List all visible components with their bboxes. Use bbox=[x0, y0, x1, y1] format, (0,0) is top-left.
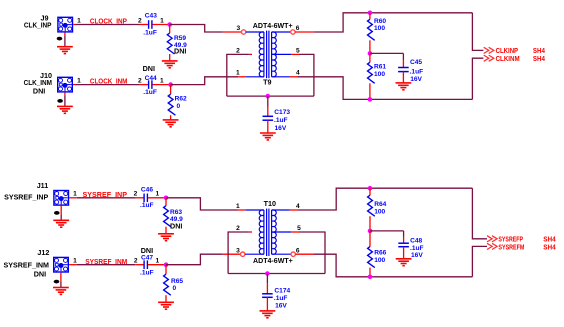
svg-text:CLK_INM: CLK_INM bbox=[24, 78, 52, 87]
ground under J9 bbox=[57, 47, 73, 54]
junction node C43/R59 bbox=[167, 22, 172, 27]
svg-text:DNI: DNI bbox=[143, 64, 155, 73]
label R61 bbox=[374, 64, 386, 71]
label ADT4-6WT+ of T9 bbox=[253, 21, 293, 30]
value 100 of R61 bbox=[374, 71, 385, 78]
svg-text:DNI: DNI bbox=[34, 269, 46, 278]
label SYSREF_INM bbox=[4, 261, 50, 270]
svg-text:0: 0 bbox=[173, 285, 177, 292]
svg-text:SYSREF_INM: SYSREF_INM bbox=[85, 257, 127, 266]
pin 5 of T10 bbox=[297, 225, 301, 232]
value .1uF of C173 bbox=[274, 117, 288, 124]
resistor R63 bbox=[164, 198, 171, 234]
wire C47 junction to T10 pin 3 bbox=[166, 254, 223, 265]
resistor R59 bbox=[167, 25, 174, 61]
ground under C45 bbox=[396, 83, 412, 90]
svg-text:R63: R63 bbox=[170, 209, 182, 216]
svg-text:DNI: DNI bbox=[170, 221, 182, 230]
svg-text:3: 3 bbox=[236, 247, 240, 254]
label C47 bbox=[141, 255, 153, 262]
svg-text:SYSREF_INP: SYSREF_INP bbox=[4, 192, 48, 201]
svg-text:C48: C48 bbox=[410, 238, 422, 245]
connector J9 bbox=[58, 17, 75, 32]
svg-text:DNI: DNI bbox=[141, 246, 153, 255]
svg-text:16V: 16V bbox=[275, 125, 287, 132]
label C48 bbox=[410, 238, 422, 245]
svg-text:DNI: DNI bbox=[33, 87, 45, 96]
net-tie blob under J12 bbox=[54, 280, 60, 284]
svg-text:T9: T9 bbox=[263, 78, 271, 87]
pin 5 of T9 bbox=[296, 48, 300, 55]
DNI note of C44 bbox=[143, 64, 155, 73]
svg-text:6: 6 bbox=[296, 25, 300, 32]
DNI note of R63 bbox=[170, 221, 182, 230]
wire top rail to SYSREFP stub bbox=[472, 188, 487, 239]
svg-text:SYSREFM: SYSREFM bbox=[498, 242, 524, 251]
net label CLKINM bbox=[496, 54, 520, 63]
wire mid node to C45 bbox=[370, 53, 404, 60]
junction node top rail/R60 bbox=[368, 11, 373, 16]
label C43 bbox=[145, 13, 157, 20]
wire center-tap rail of T10 bbox=[228, 273, 325, 275]
svg-text:C45: C45 bbox=[410, 59, 422, 66]
svg-text:ADT4-6WT+: ADT4-6WT+ bbox=[253, 256, 293, 265]
off-page arrow SYSREFM bbox=[487, 243, 497, 249]
label C45 bbox=[410, 59, 422, 66]
ground under R63 bbox=[158, 234, 174, 241]
svg-text:R62: R62 bbox=[175, 96, 187, 103]
svg-text:DNI: DNI bbox=[174, 47, 186, 56]
svg-text:6: 6 bbox=[296, 247, 300, 254]
label R62 bbox=[175, 96, 187, 103]
svg-text:2: 2 bbox=[134, 258, 138, 265]
pin 1 of T9 bbox=[236, 70, 240, 77]
svg-text:R64: R64 bbox=[374, 201, 386, 208]
svg-text:2: 2 bbox=[138, 17, 142, 24]
wire T10 pin 5 to center rail bbox=[299, 232, 325, 274]
svg-text:J11: J11 bbox=[37, 181, 49, 190]
pin 2 of C44 bbox=[138, 78, 142, 85]
label T10 refdes bbox=[264, 199, 276, 208]
svg-text:1: 1 bbox=[73, 191, 77, 198]
label J11 refdes bbox=[37, 181, 49, 190]
svg-text:SH4: SH4 bbox=[543, 242, 556, 251]
svg-text:C173: C173 bbox=[274, 109, 290, 116]
wire T10 pin 4 to top rail bbox=[297, 188, 472, 210]
junction node C46/R63 bbox=[164, 196, 169, 201]
label R64 bbox=[374, 201, 386, 208]
DNI note of J12 bbox=[34, 269, 46, 278]
svg-text:.1uF: .1uF bbox=[410, 69, 424, 76]
svg-text:CLOCK_INM: CLOCK_INM bbox=[90, 77, 128, 86]
resistor R65 bbox=[164, 265, 171, 303]
svg-text:0: 0 bbox=[177, 103, 181, 110]
junction node rail/C174 bbox=[265, 271, 270, 276]
pin 1 of J11 bbox=[73, 191, 77, 198]
junction node rail/C173 bbox=[266, 94, 271, 99]
svg-text:C46: C46 bbox=[141, 187, 153, 194]
wire T10 pin 6 to bottom rail bbox=[314, 254, 472, 277]
value 16V of C174 bbox=[275, 302, 287, 309]
svg-text:.1uF: .1uF bbox=[274, 295, 288, 302]
wire C46 junction to T10 pin 1 bbox=[166, 198, 238, 210]
svg-text:SYSREF_INP: SYSREF_INP bbox=[83, 190, 128, 199]
svg-text:1: 1 bbox=[160, 78, 164, 85]
pin 2 of C47 bbox=[134, 258, 138, 265]
label R60 bbox=[374, 18, 386, 25]
svg-text:C47: C47 bbox=[141, 255, 153, 262]
svg-text:1: 1 bbox=[160, 17, 164, 24]
svg-text:16V: 16V bbox=[411, 252, 423, 259]
transformer T10 ADT4-6WT+ bbox=[223, 209, 314, 257]
pin 1 of J9 bbox=[77, 18, 81, 25]
ground under J11 bbox=[53, 220, 69, 227]
svg-text:R66: R66 bbox=[374, 250, 386, 257]
wire bottom rail to CLKINM stub bbox=[472, 58, 483, 99]
svg-text:.1uF: .1uF bbox=[274, 117, 288, 124]
ground under J12 bbox=[53, 288, 69, 295]
svg-text:.1uF: .1uF bbox=[140, 202, 154, 209]
pin 1 of C44 bbox=[160, 78, 164, 85]
value .1uF of C48 bbox=[410, 245, 424, 252]
value 0 of R62 bbox=[177, 103, 181, 110]
transformer T9 ADT4-6WT+ bbox=[223, 30, 314, 78]
pin 1 of C46 bbox=[155, 191, 159, 198]
net label CLKINP bbox=[496, 46, 519, 55]
value 49.9 of R59 bbox=[174, 42, 187, 49]
pin 2 of T10 bbox=[236, 225, 240, 232]
label R59 bbox=[174, 35, 186, 42]
value 16V of C48 bbox=[411, 252, 423, 259]
sheet ref SH4 for SYSREFP bbox=[543, 235, 556, 244]
svg-text:1: 1 bbox=[73, 258, 77, 265]
wire C43 junction to T9 pin 3 bbox=[170, 25, 223, 33]
value 16V of C45 bbox=[410, 76, 422, 83]
resistor R60 bbox=[368, 13, 375, 54]
pin 2 of T9 bbox=[236, 48, 240, 55]
label ADT4-6WT+ of T10 bbox=[253, 256, 293, 265]
DNI note of R59 bbox=[174, 47, 186, 56]
capacitor C47 bbox=[135, 260, 166, 269]
svg-text:SH4: SH4 bbox=[533, 54, 546, 63]
svg-text:2: 2 bbox=[236, 48, 240, 55]
label R63 bbox=[170, 209, 182, 216]
capacitor C46 bbox=[135, 194, 166, 203]
sheet ref SH4 for SYSREFM bbox=[543, 242, 556, 251]
label T9 refdes bbox=[263, 78, 271, 87]
wire J9 to ground bbox=[64, 33, 66, 47]
svg-text:.1uF: .1uF bbox=[143, 30, 157, 37]
svg-text:1: 1 bbox=[155, 191, 159, 198]
svg-text:16V: 16V bbox=[275, 302, 287, 309]
wire T9 pin 6 to top rail bbox=[314, 13, 473, 32]
capacitor C48 bbox=[398, 237, 409, 259]
label CLK_INP bbox=[24, 20, 52, 29]
value 0 of R65 bbox=[173, 285, 177, 292]
connector J11 bbox=[54, 191, 77, 206]
wire T9 pin 5 to center rail bbox=[299, 54, 314, 96]
pin 6 of T10 bbox=[296, 247, 300, 254]
label J10 refdes bbox=[40, 71, 52, 80]
value .1uF of C44 bbox=[143, 89, 157, 96]
value 16V of C173 bbox=[275, 125, 287, 132]
value 100 of R66 bbox=[374, 257, 385, 264]
value 100 of R64 bbox=[374, 209, 385, 216]
svg-text:100: 100 bbox=[374, 209, 385, 216]
ground under J10 bbox=[57, 106, 73, 113]
wire T9 pin 2 to center rail bbox=[227, 54, 249, 96]
svg-text:C174: C174 bbox=[274, 288, 290, 295]
svg-text:3: 3 bbox=[236, 25, 240, 32]
svg-text:T10: T10 bbox=[264, 199, 276, 208]
ground under R65 bbox=[158, 302, 174, 309]
wire mid node to C48 bbox=[370, 231, 404, 237]
wire center-tap rail of T9 bbox=[227, 95, 314, 97]
pin 2 of C43 bbox=[138, 17, 142, 24]
net label CLOCK_INP bbox=[90, 17, 127, 26]
svg-text:J12: J12 bbox=[37, 248, 49, 257]
ground under C48 bbox=[396, 259, 412, 266]
wire net SYSREF_INP J11 to C46 bbox=[77, 197, 135, 199]
svg-text:SYSREF_INM: SYSREF_INM bbox=[4, 261, 50, 270]
svg-text:CLOCK_INP: CLOCK_INP bbox=[90, 17, 127, 26]
off-page arrow CLKINM bbox=[484, 55, 494, 61]
label SYSREF_INP bbox=[4, 192, 48, 201]
pin 3 of T10 bbox=[236, 247, 240, 254]
capacitor C44 bbox=[140, 80, 171, 89]
svg-text:100: 100 bbox=[374, 25, 385, 32]
svg-text:R61: R61 bbox=[374, 64, 386, 71]
value .1uF of C174 bbox=[274, 295, 288, 302]
connector J10 bbox=[58, 77, 76, 92]
resistor R66 bbox=[368, 231, 375, 277]
label C174 bbox=[274, 288, 290, 295]
pin 4 of T9 bbox=[296, 70, 300, 77]
net label CLOCK_INM bbox=[90, 77, 128, 86]
value .1uF of C47 bbox=[140, 269, 154, 276]
DNI note of C47 bbox=[141, 246, 153, 255]
svg-text:.1uF: .1uF bbox=[410, 245, 424, 252]
label J9 refdes bbox=[41, 13, 49, 22]
wire J12 to ground bbox=[60, 273, 62, 288]
pin 1 of C47 bbox=[155, 258, 159, 265]
svg-text:100: 100 bbox=[374, 71, 385, 78]
resistor R61 bbox=[368, 53, 375, 99]
svg-text:4: 4 bbox=[296, 203, 300, 210]
junction node bottom rail/R66 bbox=[368, 275, 373, 280]
pin 4 of T10 bbox=[296, 203, 300, 210]
label C46 bbox=[141, 187, 153, 194]
svg-text:2: 2 bbox=[236, 225, 240, 232]
net label SYSREF_INM bbox=[85, 257, 127, 266]
svg-text:R65: R65 bbox=[171, 278, 183, 285]
net label SYSREFP bbox=[498, 235, 523, 244]
resistor R62 bbox=[168, 85, 175, 120]
DNI note of J10 bbox=[33, 87, 45, 96]
value .1uF of C43 bbox=[143, 30, 157, 37]
svg-text:1: 1 bbox=[236, 70, 240, 77]
net-tie blob under J10 bbox=[57, 99, 63, 103]
pin 1 of J12 bbox=[73, 258, 77, 265]
svg-text:16V: 16V bbox=[410, 76, 422, 83]
svg-text:5: 5 bbox=[296, 48, 300, 55]
label CLK_INM bbox=[24, 78, 52, 87]
wire top rail to CLKINP stub bbox=[472, 13, 483, 51]
junction node top rail/R64 bbox=[368, 186, 373, 191]
connector J12 bbox=[54, 257, 77, 272]
net-tie blob under J11 bbox=[54, 211, 60, 215]
svg-text:R60: R60 bbox=[374, 18, 386, 25]
svg-text:4: 4 bbox=[296, 70, 300, 77]
wire C44 junction to T9 pin 1 bbox=[171, 77, 239, 85]
pin 1 of C43 bbox=[160, 17, 164, 24]
pin 1 of J10 bbox=[77, 78, 81, 85]
off-page arrow CLKINP bbox=[484, 47, 494, 53]
label C173 bbox=[274, 109, 290, 116]
pin 6 of T9 bbox=[296, 25, 300, 32]
label J12 refdes bbox=[37, 248, 49, 257]
capacitor C45 bbox=[398, 60, 409, 83]
ground under R62 bbox=[163, 120, 179, 127]
value 100 of R60 bbox=[374, 25, 385, 32]
resistor R64 bbox=[368, 188, 375, 231]
wire T10 pin 2 to center rail bbox=[228, 232, 249, 274]
value 49.9 of R63 bbox=[170, 216, 183, 223]
wire J11 to ground bbox=[60, 206, 62, 221]
wire bottom rail to SYSREFM stub bbox=[472, 246, 487, 276]
svg-text:1: 1 bbox=[77, 18, 81, 25]
svg-text:2: 2 bbox=[138, 78, 142, 85]
value .1uF of C45 bbox=[410, 69, 424, 76]
svg-text:2: 2 bbox=[134, 191, 138, 198]
net-tie blob under J9 bbox=[57, 37, 63, 41]
wire J10 to ground bbox=[64, 93, 66, 107]
net label SYSREF_INP bbox=[83, 190, 128, 199]
value .1uF of C46 bbox=[140, 202, 154, 209]
svg-text:5: 5 bbox=[297, 225, 301, 232]
svg-text:100: 100 bbox=[374, 257, 385, 264]
wire net SYSREF_INM J12 to C47 bbox=[77, 264, 135, 266]
junction node C47/R65 bbox=[164, 262, 169, 267]
sheet ref SH4 for CLKINM bbox=[533, 54, 546, 63]
pin 1 of T10 bbox=[236, 203, 240, 210]
junction node R60/R61/C45 bbox=[368, 51, 373, 56]
net label SYSREFM bbox=[498, 242, 524, 251]
label R66 bbox=[374, 250, 386, 257]
off-page arrow SYSREFP bbox=[487, 236, 497, 242]
ground under C173 bbox=[260, 133, 276, 140]
svg-text:C44: C44 bbox=[145, 75, 157, 82]
sheet ref SH4 for CLKINP bbox=[533, 46, 546, 55]
junction node bottom rail/R61 bbox=[368, 97, 373, 102]
pin 2 of C46 bbox=[134, 191, 138, 198]
label R65 bbox=[171, 278, 183, 285]
ground under C174 bbox=[260, 311, 276, 318]
svg-text:1: 1 bbox=[77, 78, 81, 85]
capacitor C174 bbox=[262, 274, 273, 311]
wire net CLOCK_INP J9 to C43 bbox=[75, 24, 139, 26]
wire T9 pin 4 to bottom rail bbox=[297, 77, 472, 100]
capacitor C173 bbox=[263, 96, 274, 133]
capacitor C43 bbox=[140, 20, 170, 29]
junction node C44/R62 bbox=[168, 82, 173, 87]
svg-text:1: 1 bbox=[236, 203, 240, 210]
svg-text:CLKINM: CLKINM bbox=[496, 54, 520, 63]
svg-text:.1uF: .1uF bbox=[140, 269, 154, 276]
svg-text:ADT4-6WT+: ADT4-6WT+ bbox=[253, 21, 293, 30]
svg-text:C43: C43 bbox=[145, 13, 157, 20]
wire net CLOCK_INM J10 to C44 bbox=[75, 84, 139, 86]
pin 3 of T9 bbox=[236, 25, 240, 32]
junction node R64/R66/C48 bbox=[368, 229, 373, 234]
label C44 bbox=[145, 75, 157, 82]
ground under R59 bbox=[162, 61, 178, 68]
svg-text:CLK_INP: CLK_INP bbox=[24, 20, 52, 29]
svg-text:.1uF: .1uF bbox=[143, 89, 157, 96]
svg-text:1: 1 bbox=[155, 258, 159, 265]
